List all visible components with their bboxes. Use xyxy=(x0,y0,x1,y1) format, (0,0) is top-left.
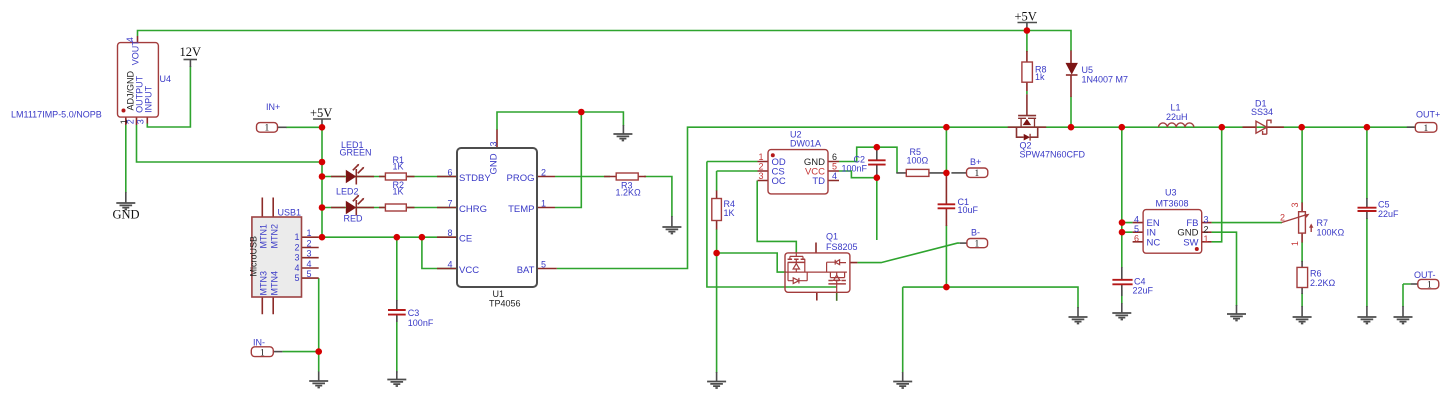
svg-text:100KΩ: 100KΩ xyxy=(1317,228,1345,238)
svg-text:1K: 1K xyxy=(393,186,404,196)
svg-text:22uF: 22uF xyxy=(1133,286,1154,296)
svg-text:5: 5 xyxy=(307,269,312,279)
svg-text:2: 2 xyxy=(758,162,763,172)
svg-text:INPUT: INPUT xyxy=(143,85,153,113)
svg-text:4: 4 xyxy=(832,171,837,181)
svg-text:STDBY: STDBY xyxy=(459,173,491,184)
svg-text:1: 1 xyxy=(260,348,265,358)
svg-text:6: 6 xyxy=(1134,234,1139,244)
svg-text:VCC: VCC xyxy=(459,265,479,276)
svg-text:12V: 12V xyxy=(180,45,202,59)
svg-text:SW: SW xyxy=(1183,237,1198,248)
svg-text:PROG: PROG xyxy=(507,173,535,184)
svg-text:4: 4 xyxy=(307,259,312,269)
svg-text:MTN1: MTN1 xyxy=(259,224,269,249)
svg-text:IN-: IN- xyxy=(253,337,265,347)
svg-text:1: 1 xyxy=(541,198,546,208)
svg-text:C3: C3 xyxy=(408,308,420,318)
svg-text:TP4056: TP4056 xyxy=(489,299,521,309)
svg-text:3: 3 xyxy=(307,249,312,259)
svg-text:4: 4 xyxy=(125,37,135,42)
svg-text:8: 8 xyxy=(447,228,452,238)
svg-text:3: 3 xyxy=(1290,202,1300,207)
svg-text:VOUT: VOUT xyxy=(130,40,140,66)
svg-text:1N4007 M7: 1N4007 M7 xyxy=(1082,74,1129,84)
svg-text:10uF: 10uF xyxy=(958,205,979,215)
svg-text:2: 2 xyxy=(125,119,135,124)
svg-text:L1: L1 xyxy=(1171,103,1181,113)
svg-text:1K: 1K xyxy=(724,208,735,218)
svg-text:Q1: Q1 xyxy=(826,232,838,242)
svg-text:100nF: 100nF xyxy=(408,318,434,328)
svg-text:100nF: 100nF xyxy=(842,163,868,173)
svg-text:1: 1 xyxy=(1204,234,1209,244)
svg-text:3: 3 xyxy=(758,171,763,181)
svg-text:OC: OC xyxy=(772,176,786,187)
svg-text:B+: B+ xyxy=(970,157,981,167)
svg-text:4: 4 xyxy=(447,259,452,269)
svg-text:SPW47N60CFD: SPW47N60CFD xyxy=(1020,149,1086,159)
svg-text:MicroUSB: MicroUSB xyxy=(249,236,259,277)
svg-text:R7: R7 xyxy=(1317,218,1329,228)
svg-text:3: 3 xyxy=(488,141,498,146)
svg-text:MTN2: MTN2 xyxy=(269,224,279,249)
svg-text:BAT: BAT xyxy=(517,265,535,276)
svg-text:5: 5 xyxy=(832,162,837,172)
svg-text:GREEN: GREEN xyxy=(340,148,372,158)
svg-text:4: 4 xyxy=(1134,214,1139,224)
svg-text:DW01A: DW01A xyxy=(790,139,821,149)
svg-text:3: 3 xyxy=(136,119,146,124)
svg-text:RED: RED xyxy=(344,214,364,224)
svg-text:1: 1 xyxy=(975,169,980,179)
svg-text:4: 4 xyxy=(295,263,300,273)
svg-text:6: 6 xyxy=(447,167,452,177)
svg-text:1: 1 xyxy=(758,152,763,162)
svg-text:LED2: LED2 xyxy=(336,187,359,197)
svg-text:2: 2 xyxy=(1280,213,1285,223)
svg-text:1k: 1k xyxy=(1035,72,1045,82)
svg-text:1: 1 xyxy=(975,240,980,250)
svg-text:MT3608: MT3608 xyxy=(1156,198,1189,208)
svg-text:5: 5 xyxy=(295,273,300,283)
svg-text:GND: GND xyxy=(489,153,500,174)
svg-text:MTN3: MTN3 xyxy=(259,271,269,296)
svg-text:+5V: +5V xyxy=(310,106,332,120)
svg-text:2: 2 xyxy=(307,238,312,248)
svg-text:22uH: 22uH xyxy=(1166,112,1188,122)
svg-text:1: 1 xyxy=(1427,281,1432,291)
svg-text:1: 1 xyxy=(295,232,300,242)
svg-text:22uF: 22uF xyxy=(1378,209,1399,219)
svg-text:SS34: SS34 xyxy=(1251,107,1273,117)
svg-text:2: 2 xyxy=(541,167,546,177)
svg-text:GND: GND xyxy=(113,208,140,222)
svg-text:2: 2 xyxy=(295,242,300,252)
svg-text:U4: U4 xyxy=(160,74,172,84)
svg-text:7: 7 xyxy=(447,198,452,208)
svg-text:NC: NC xyxy=(1147,237,1161,248)
svg-text:USB1: USB1 xyxy=(278,208,302,218)
svg-text:U1: U1 xyxy=(493,289,505,299)
svg-text:3: 3 xyxy=(1204,215,1209,225)
svg-text:1: 1 xyxy=(307,228,312,238)
svg-text:1.2KΩ: 1.2KΩ xyxy=(616,188,642,198)
svg-text:OUT-: OUT- xyxy=(1414,270,1436,280)
svg-text:1K: 1K xyxy=(393,162,404,172)
svg-text:LM1117IMP-5.0/NOPB: LM1117IMP-5.0/NOPB xyxy=(11,110,102,120)
svg-text:C5: C5 xyxy=(1378,200,1390,210)
svg-text:CHRG: CHRG xyxy=(459,204,487,215)
svg-text:1: 1 xyxy=(1290,241,1300,246)
svg-text:B-: B- xyxy=(971,228,980,238)
svg-text:U3: U3 xyxy=(1165,188,1177,198)
svg-text:TD: TD xyxy=(812,176,825,187)
svg-text:6: 6 xyxy=(832,152,837,162)
svg-text:5: 5 xyxy=(1134,224,1139,234)
svg-text:+5V: +5V xyxy=(1015,10,1037,24)
svg-text:TEMP: TEMP xyxy=(508,204,534,215)
svg-text:5: 5 xyxy=(541,259,546,269)
svg-text:IN+: IN+ xyxy=(266,102,280,112)
svg-text:OUT+: OUT+ xyxy=(1416,110,1440,120)
svg-text:FS8205: FS8205 xyxy=(826,242,858,252)
svg-text:100Ω: 100Ω xyxy=(907,156,929,166)
svg-text:3: 3 xyxy=(295,253,300,263)
svg-text:2.2KΩ: 2.2KΩ xyxy=(1310,278,1336,288)
svg-text:CE: CE xyxy=(459,234,472,245)
svg-text:1: 1 xyxy=(1424,124,1429,134)
svg-text:R6: R6 xyxy=(1310,269,1322,279)
svg-text:1: 1 xyxy=(265,124,270,134)
svg-text:2: 2 xyxy=(1204,225,1209,235)
svg-text:MTN4: MTN4 xyxy=(269,271,279,296)
